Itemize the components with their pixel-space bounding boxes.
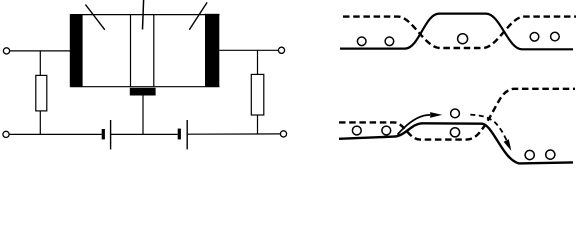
emitter contact bar — [70, 14, 83, 87]
battery B2 long plate — [186, 120, 188, 149]
bottom rail segment 1 — [9, 133, 102, 135]
electron flow arrow curve — [398, 115, 431, 135]
band diagram 1 valence band dashed — [343, 17, 576, 48]
wire top-left — [10, 50, 71, 52]
base lead diagonal — [143, 0, 144, 30]
wire base to rail — [142, 96, 144, 135]
base region left edge — [130, 15, 132, 87]
electron flow arrow head — [430, 112, 442, 118]
electron circle 1d — [530, 33, 539, 42]
battery B1 long plate — [110, 120, 112, 149]
band diagram 2 conduction band solid — [339, 123, 573, 163]
band diagram 2 valence band dashed — [339, 89, 575, 140]
terminal bottom-right — [280, 131, 286, 137]
battery B1 short plate — [102, 129, 105, 139]
collector contact bar — [205, 14, 219, 87]
electron circle 1b — [385, 37, 394, 46]
terminal bottom-left — [3, 131, 9, 137]
hole circle 2c — [525, 150, 534, 159]
electron circle 1a — [357, 37, 366, 46]
wire resistor R2 branch — [257, 50, 259, 134]
base contact bar — [130, 88, 156, 96]
resistor R1 — [36, 75, 47, 111]
hole flow arrow dashed curve — [470, 115, 506, 141]
semiconductor body top edge — [70, 14, 220, 16]
battery B2 short plate — [178, 129, 181, 140]
collector lead diagonal — [189, 2, 207, 29]
emitter lead diagonal — [85, 5, 104, 30]
resistor R2 — [251, 74, 263, 115]
band diagram 1 conduction band solid — [340, 14, 573, 50]
base region right edge — [153, 15, 155, 87]
terminal top-left — [3, 48, 9, 54]
bottom rail segment 2 — [111, 133, 178, 135]
hole flow arrow head — [504, 139, 512, 151]
terminal top-right — [278, 47, 284, 53]
hole circle 2a — [352, 126, 361, 135]
electron circle 1e — [551, 32, 560, 41]
hole circle 2b — [382, 126, 391, 135]
hole circle middle — [450, 128, 459, 137]
electron circle barrier top — [451, 109, 460, 118]
hole circle 2d — [546, 150, 555, 159]
bottom rail segment 3 — [187, 133, 280, 135]
wire top-right — [219, 49, 278, 51]
electron circle 1c — [458, 34, 468, 44]
semiconductor body bottom edge — [70, 86, 220, 88]
wire resistor R1 branch — [39, 51, 41, 134]
